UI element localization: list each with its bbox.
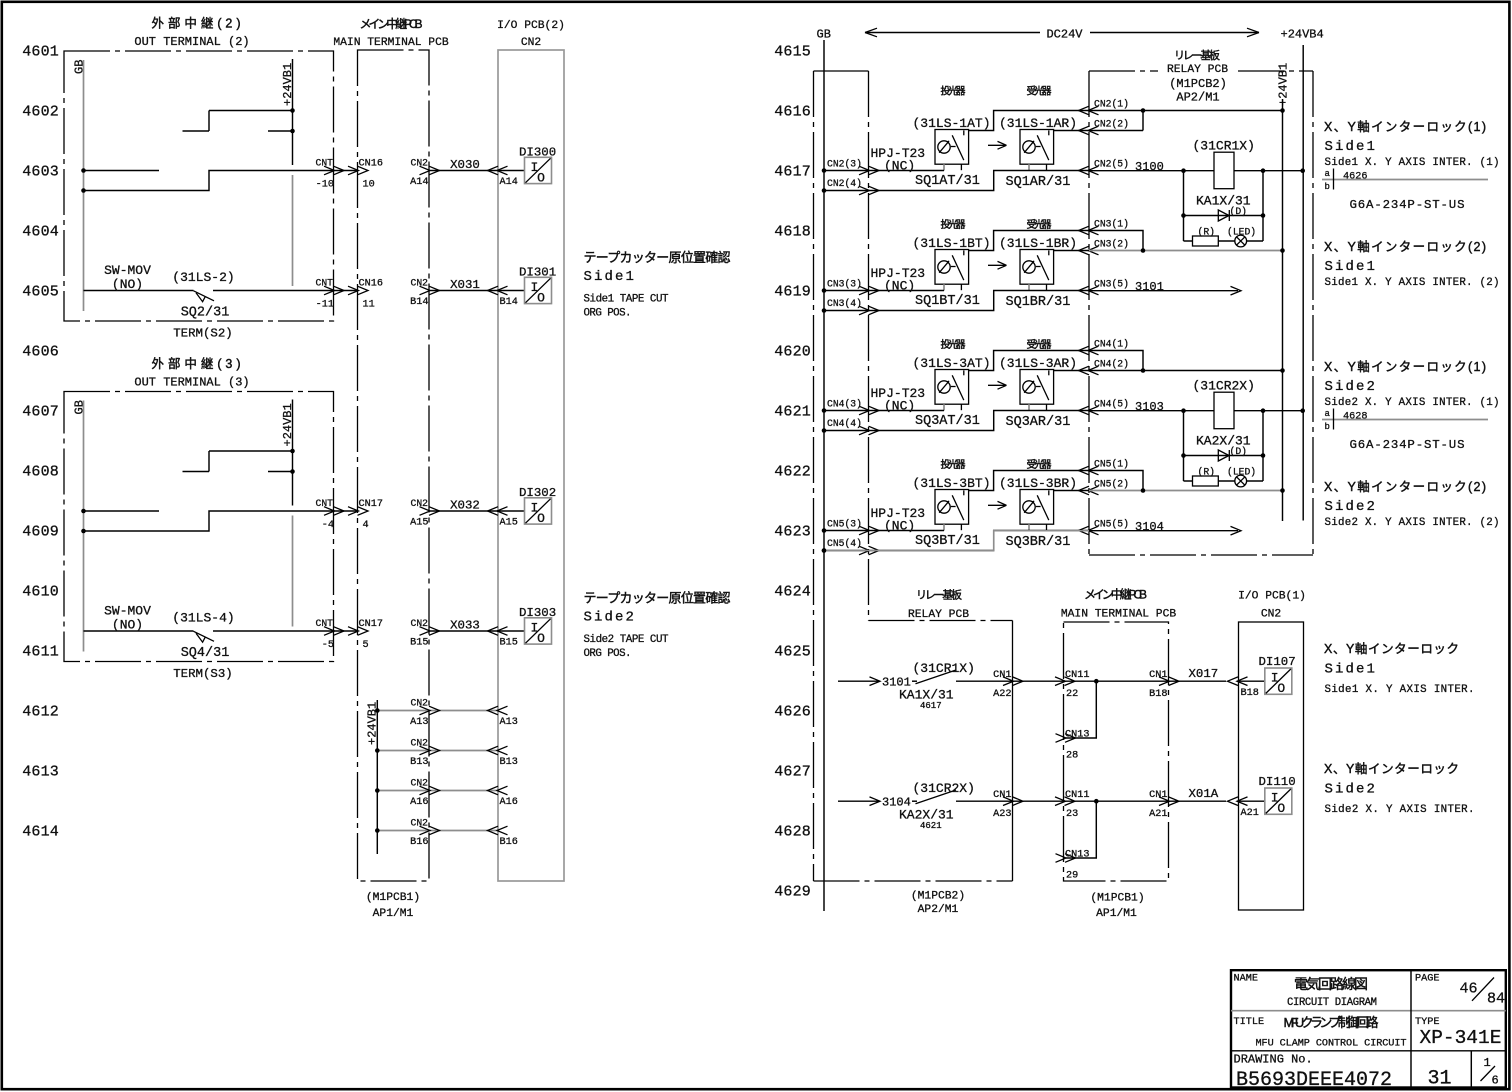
main terminal pcb box M1PCB1 (left): [358, 50, 430, 881]
svg-text:4611: 4611: [22, 643, 59, 660]
svg-text:(31LS-3AT): (31LS-3AT): [912, 356, 990, 371]
svg-text:-4: -4: [322, 520, 334, 531]
svg-text:4628: 4628: [774, 823, 811, 840]
svg-text:A14: A14: [410, 177, 428, 188]
svg-text:CN1: CN1: [993, 790, 1011, 801]
bus rail +24VB1: [1282, 99, 1284, 521]
svg-text:4629: 4629: [774, 883, 811, 900]
svg-text:SQ1AT/31: SQ1AT/31: [915, 174, 980, 189]
svg-text:Side2: Side2: [1325, 782, 1378, 798]
svg-text:46: 46: [1460, 981, 1478, 998]
svg-text:4: 4: [363, 520, 369, 531]
svg-text:84: 84: [1487, 991, 1505, 1008]
wire CN2 B16 row: [375, 818, 508, 835]
svg-text:CN16: CN16: [359, 159, 383, 170]
svg-text:CN5(4): CN5(4): [827, 538, 862, 549]
svg-text:Side2 X. Y AXIS INTER. (1): Side2 X. Y AXIS INTER. (1): [1325, 397, 1500, 409]
svg-text:(M1PCB1): (M1PCB1): [366, 892, 420, 904]
svg-text:CN11: CN11: [1065, 670, 1089, 681]
svg-text:A21: A21: [1241, 808, 1259, 819]
svg-text:SQ3AT/31: SQ3AT/31: [915, 414, 980, 429]
svg-text:CN17: CN17: [359, 499, 383, 510]
svg-text:PAGE: PAGE: [1415, 974, 1439, 985]
svg-text:B14: B14: [500, 297, 518, 308]
svg-text:OUT TERMINAL (2): OUT TERMINAL (2): [134, 35, 249, 49]
wire X032 row with I/O point DI302: [411, 498, 552, 526]
svg-text:A15: A15: [410, 518, 428, 529]
relay contact KA2X/31 row to I/O DI110: [838, 788, 1292, 862]
svg-text:RELAY PCB: RELAY PCB: [908, 609, 969, 621]
svg-text:MFUクランプ 制御回路: MFUクランプ 制御回路: [1284, 1015, 1379, 1030]
sensor pair 31LS-3AT / 31LS-3AR with wires CN4(1)-CN4(4): [822, 346, 1099, 435]
svg-text:A16: A16: [500, 797, 518, 808]
svg-text:Side1 X. Y AXIS INTER.: Side1 X. Y AXIS INTER.: [1325, 684, 1475, 696]
svg-text:TERM(S2): TERM(S2): [173, 327, 233, 341]
svg-text:X、Y軸インターロック: X、Y軸インターロック: [1324, 642, 1459, 656]
svg-text:メイン中継PCB: メイン中継PCB: [360, 16, 423, 31]
svg-text:(31LS-1BR): (31LS-1BR): [999, 236, 1077, 251]
svg-text:B16: B16: [410, 837, 428, 848]
svg-text:3104: 3104: [1135, 520, 1164, 534]
svg-text:(M1PCB1): (M1PCB1): [1090, 893, 1144, 905]
svg-text:(M1PCB2): (M1PCB2): [911, 891, 965, 903]
svg-text:Side1: Side1: [584, 269, 637, 285]
svg-text:Side1: Side1: [1325, 662, 1378, 678]
svg-text:CN5(1): CN5(1): [1094, 459, 1129, 470]
svg-text:4623: 4623: [774, 523, 811, 540]
svg-text:Side1 TAPE CUT: Side1 TAPE CUT: [584, 294, 670, 306]
relay contact KA1X/31 row to I/O DI107: [838, 668, 1292, 742]
svg-text:CN3(3): CN3(3): [827, 279, 862, 290]
svg-text:DI302: DI302: [519, 486, 556, 500]
svg-text:DI300: DI300: [519, 146, 556, 160]
svg-text:5: 5: [363, 640, 369, 651]
svg-text:受光器: 受光器: [1027, 218, 1052, 231]
svg-text:投光器: 投光器: [941, 458, 966, 471]
svg-text:4619: 4619: [774, 283, 811, 300]
svg-text:CN16: CN16: [359, 279, 383, 290]
signal 3104 output arrow: [1089, 526, 1241, 535]
svg-text:DI107: DI107: [1259, 655, 1296, 669]
svg-text:X030: X030: [450, 158, 480, 172]
svg-text:-11: -11: [316, 300, 334, 311]
annotation X,Y axis interlock (1) Side1: [1322, 120, 1500, 212]
svg-text:Side1: Side1: [1325, 139, 1378, 155]
svg-text:X01A: X01A: [1189, 787, 1219, 801]
svg-text:投光器: 投光器: [941, 85, 966, 98]
svg-text:TERM(S3): TERM(S3): [173, 667, 233, 681]
svg-text:-5: -5: [322, 640, 334, 651]
svg-text:DI110: DI110: [1259, 775, 1296, 789]
svg-text:投光器: 投光器: [941, 338, 966, 351]
svg-text:CN3(2): CN3(2): [1094, 239, 1129, 250]
svg-text:AP1/M1: AP1/M1: [373, 908, 414, 920]
svg-text:B15: B15: [410, 638, 428, 649]
wire X033 row with I/O point DI303: [411, 618, 552, 646]
svg-text:X、Y軸インターロック(2): X、Y軸インターロック(2): [1324, 480, 1486, 494]
svg-text:b: b: [1325, 182, 1330, 192]
svg-text:B18: B18: [1241, 688, 1259, 699]
svg-text:4602: 4602: [22, 103, 59, 120]
svg-text:4617: 4617: [774, 163, 811, 180]
svg-text:MFU CLAMP CONTROL CIRCUIT: MFU CLAMP CONTROL CIRCUIT: [1256, 1039, 1407, 1050]
wire X031 row with I/O point DI301: [411, 277, 552, 305]
svg-text:CN13: CN13: [1065, 730, 1089, 741]
svg-text:4626: 4626: [774, 703, 811, 720]
svg-text:4621: 4621: [774, 403, 811, 420]
left column line numbers 4601-4614: [22, 43, 59, 840]
svg-text:ORG POS.: ORG POS.: [584, 308, 632, 320]
svg-text:4627: 4627: [774, 763, 811, 780]
svg-text:DI303: DI303: [519, 606, 556, 620]
svg-text:X017: X017: [1189, 667, 1219, 681]
terminal box TERM(S3) OUT TERMINAL (3): [64, 392, 368, 662]
svg-text:4601: 4601: [22, 43, 59, 60]
wire CN2 B13 row: [375, 738, 508, 755]
svg-text:B15: B15: [500, 638, 518, 649]
sensor pair 31LS-3BT / 31LS-3BR with wires CN5(1)-CN5(4): [822, 466, 1099, 555]
wire CN2 A13 row: [375, 698, 508, 715]
svg-text:A16: A16: [410, 797, 428, 808]
svg-text:ORG POS.: ORG POS.: [584, 648, 632, 660]
svg-text:DC24V: DC24V: [1046, 28, 1083, 42]
right column line numbers 4615-4629: [774, 43, 811, 900]
svg-text:CN5(5): CN5(5): [1094, 519, 1129, 530]
relay pcb box RELAY PCB M1PCB2 (top): [1088, 71, 1090, 555]
svg-text:CN2(2): CN2(2): [1094, 119, 1129, 130]
svg-text:(31LS-1BT): (31LS-1BT): [912, 236, 990, 251]
svg-text:(31CR1X): (31CR1X): [913, 661, 975, 676]
svg-text:CN5(3): CN5(3): [827, 519, 862, 530]
svg-text:B14: B14: [410, 297, 428, 308]
svg-text:(31LS-2): (31LS-2): [172, 270, 234, 285]
I/O pcb box I/O PCB(1): [1239, 622, 1304, 910]
svg-text:CIRCUIT DIAGRAM: CIRCUIT DIAGRAM: [1287, 997, 1377, 1009]
svg-text:B16: B16: [500, 837, 518, 848]
svg-text:X、Y軸インターロック(2): X、Y軸インターロック(2): [1324, 240, 1486, 254]
svg-text:X033: X033: [450, 619, 480, 633]
svg-text:(31LS-1AR): (31LS-1AR): [999, 116, 1077, 131]
svg-text:X、Y軸インターロック(1): X、Y軸インターロック(1): [1324, 120, 1486, 134]
svg-text:I/O PCB(2): I/O PCB(2): [497, 20, 565, 32]
svg-text:4618: 4618: [774, 223, 811, 240]
svg-text:4608: 4608: [22, 463, 59, 480]
svg-text:受光器: 受光器: [1027, 338, 1052, 351]
svg-text:Side1: Side1: [1325, 259, 1378, 275]
svg-text:(31CR1X): (31CR1X): [1193, 139, 1255, 154]
svg-text:Side2 TAPE CUT: Side2 TAPE CUT: [584, 634, 670, 646]
svg-text:SQ4/31: SQ4/31: [181, 646, 230, 661]
svg-text:3103: 3103: [1135, 400, 1164, 414]
svg-text:4621: 4621: [920, 821, 942, 831]
svg-text:4605: 4605: [22, 283, 59, 300]
svg-text:+24VB1: +24VB1: [1277, 63, 1291, 106]
svg-text:AP2/M1: AP2/M1: [1176, 91, 1219, 105]
svg-text:22: 22: [1066, 689, 1078, 700]
wire X030 row with I/O point DI300: [411, 157, 552, 185]
svg-text:B13: B13: [410, 757, 428, 768]
svg-text:CN2(1): CN2(1): [1094, 99, 1129, 110]
svg-text:CN2(4): CN2(4): [827, 178, 862, 189]
svg-text:テープカッター原位置確認: テープカッター原位置確認: [584, 591, 731, 606]
wire CN5(4) jog (gray): [824, 531, 1089, 551]
svg-text:DI301: DI301: [519, 266, 556, 280]
svg-text:4610: 4610: [22, 583, 59, 600]
wire CN2(1) to +24VB1 with jog to CN2(2): [1089, 110, 1283, 112]
svg-text:CN2(3): CN2(3): [827, 159, 862, 170]
svg-text:A21: A21: [1149, 809, 1167, 820]
svg-text:6: 6: [1492, 1074, 1499, 1088]
terminal box TERM(S2) OUT TERMINAL (2): [64, 51, 368, 321]
svg-text:11: 11: [363, 300, 375, 311]
svg-text:4615: 4615: [774, 43, 811, 60]
relay 31CR2X coil circuit: [1089, 392, 1305, 487]
annotation X,Y axis interlock (2) Side2: [1324, 480, 1500, 529]
svg-text:I/O PCB(1): I/O PCB(1): [1238, 591, 1306, 603]
svg-text:(M1PCB2): (M1PCB2): [1169, 77, 1227, 91]
relay pcb connector-side boundary: [813, 71, 815, 881]
svg-text:CN2: CN2: [521, 37, 541, 49]
svg-text:RELAY PCB: RELAY PCB: [1167, 64, 1228, 76]
svg-text:4617: 4617: [920, 701, 942, 711]
svg-text:31: 31: [1427, 1067, 1451, 1090]
svg-text:CN4(5): CN4(5): [1094, 399, 1129, 410]
svg-text:CN3(4): CN3(4): [827, 298, 862, 309]
svg-text:4620: 4620: [774, 343, 811, 360]
svg-text:CN2: CN2: [1261, 609, 1281, 621]
svg-text:28: 28: [1066, 751, 1078, 762]
svg-text:A14: A14: [500, 177, 518, 188]
svg-text:CN11: CN11: [1065, 790, 1089, 801]
svg-text:Side2 X. Y AXIS INTER.: Side2 X. Y AXIS INTER.: [1325, 804, 1475, 816]
TITLE BLOCK: [1231, 970, 1506, 1092]
wire CN3(1)/CN3(2) to +24VB1: [1089, 231, 1143, 251]
svg-text:Side2: Side2: [1325, 499, 1378, 515]
svg-text:CN4(1): CN4(1): [1094, 339, 1129, 350]
svg-text:CN4(4): CN4(4): [827, 418, 862, 429]
svg-text:4622: 4622: [774, 463, 811, 480]
title block frame: [1231, 970, 1506, 1087]
svg-text:(31LS-3BT): (31LS-3BT): [912, 476, 990, 491]
svg-text:4607: 4607: [22, 403, 59, 420]
svg-text:CN1: CN1: [1149, 790, 1167, 801]
svg-text:3101: 3101: [1135, 280, 1164, 294]
svg-text:OUT TERMINAL (3): OUT TERMINAL (3): [134, 376, 249, 390]
svg-text:Side2: Side2: [584, 610, 637, 626]
bus rail GB: [823, 40, 825, 911]
svg-text:CN4(3): CN4(3): [827, 399, 862, 410]
svg-text:CN5(2): CN5(2): [1094, 479, 1129, 490]
svg-text:(31LS-3BR): (31LS-3BR): [999, 476, 1077, 491]
sensor pair 31LS-1AT / 31LS-1AR with wires CN2(1)-CN2(4): [822, 106, 1099, 195]
svg-text:B13: B13: [500, 757, 518, 768]
svg-text:(31LS-3AR): (31LS-3AR): [999, 356, 1077, 371]
svg-text:メイン中継PCB: メイン中継PCB: [1084, 587, 1147, 602]
wire CN4(1)/CN4(2) to +24VB1: [1089, 351, 1143, 371]
svg-text:(31LS-4): (31LS-4): [172, 611, 234, 626]
svg-text:B5693DEEE4072: B5693DEEE4072: [1236, 1069, 1392, 1092]
svg-text:4613: 4613: [22, 763, 59, 780]
svg-text:4609: 4609: [22, 523, 59, 540]
main terminal pcb box M1PCB1 (bottom right): [1064, 622, 1169, 881]
svg-text:A15: A15: [500, 518, 518, 529]
svg-text:+24VB4: +24VB4: [1281, 28, 1324, 42]
svg-text:AP1/M1: AP1/M1: [1096, 908, 1137, 920]
svg-text:テープカッター原位置確認: テープカッター原位置確認: [584, 250, 731, 265]
svg-text:CN3(5): CN3(5): [1094, 279, 1129, 290]
svg-text:DRAWING No.: DRAWING No.: [1234, 1053, 1313, 1067]
svg-text:GB: GB: [817, 28, 831, 42]
svg-text:SQ3BR/31: SQ3BR/31: [1006, 535, 1071, 550]
svg-text:A13: A13: [500, 717, 518, 728]
svg-text:a: a: [1325, 409, 1331, 419]
svg-text:Side1 X. Y AXIS INTER. (1): Side1 X. Y AXIS INTER. (1): [1325, 157, 1500, 169]
svg-text:受光器: 受光器: [1027, 458, 1052, 471]
svg-text:X、Y軸インターロック(1): X、Y軸インターロック(1): [1324, 360, 1486, 374]
svg-text:4614: 4614: [22, 823, 59, 840]
svg-text:4624: 4624: [774, 583, 811, 600]
annotation X,Y axis interlock (1) Side2: [1322, 360, 1500, 452]
svg-text:CN4(2): CN4(2): [1094, 359, 1129, 370]
svg-text:4603: 4603: [22, 163, 59, 180]
svg-text:Side2 X. Y AXIS INTER. (2): Side2 X. Y AXIS INTER. (2): [1325, 517, 1500, 529]
wire CN5(1)/CN5(2) to +24VB1: [1089, 471, 1143, 491]
annotation X,Y axis interlock (2) Side1: [1324, 240, 1500, 289]
svg-text:23: 23: [1066, 809, 1078, 820]
svg-text:B18: B18: [1149, 689, 1167, 700]
svg-text:CN17: CN17: [359, 619, 383, 630]
svg-text:10: 10: [363, 180, 375, 191]
svg-text:4626: 4626: [1343, 172, 1367, 183]
sensor pair 31LS-1BT / 31LS-1BR with wires CN3(1)-CN3(4): [822, 226, 1099, 315]
svg-text:X、Y軸インターロック: X、Y軸インターロック: [1324, 762, 1459, 776]
svg-text:AP2/M1: AP2/M1: [918, 904, 959, 916]
svg-text:KA2X/31: KA2X/31: [1196, 434, 1251, 449]
DC24V span arrow: [865, 32, 1259, 34]
svg-text:受光器: 受光器: [1027, 85, 1052, 98]
svg-text:SQ3BT/31: SQ3BT/31: [915, 534, 980, 549]
svg-text:Side1 X. Y AXIS INTER. (2): Side1 X. Y AXIS INTER. (2): [1325, 277, 1500, 289]
svg-text:KA1X/31: KA1X/31: [1196, 194, 1251, 209]
svg-text:SQ1BT/31: SQ1BT/31: [915, 294, 980, 309]
svg-text:1: 1: [1484, 1056, 1491, 1070]
svg-text:CN13: CN13: [1065, 850, 1089, 861]
signal 3101 output arrow: [1089, 286, 1241, 295]
svg-text:(31LS-1AT): (31LS-1AT): [912, 116, 990, 131]
svg-text:G6A-234P-ST-US: G6A-234P-ST-US: [1350, 438, 1465, 452]
svg-text:X032: X032: [450, 499, 480, 513]
svg-text:CN1: CN1: [1149, 670, 1167, 681]
svg-text:Side2: Side2: [1325, 379, 1378, 395]
svg-text:(31CR2X): (31CR2X): [1193, 379, 1255, 394]
svg-text:4612: 4612: [22, 703, 59, 720]
svg-text:A22: A22: [993, 689, 1011, 700]
relay pcb contact-section boundary: [869, 620, 1013, 622]
svg-text:b: b: [1325, 422, 1330, 432]
svg-text:4606: 4606: [22, 343, 59, 360]
svg-text:X031: X031: [450, 278, 480, 292]
annotation X,Y axis interlock Side1 (bottom): [1324, 642, 1475, 696]
svg-text:4604: 4604: [22, 223, 59, 240]
svg-text:電気回路線図: 電気回路線図: [1294, 976, 1368, 992]
svg-text:4625: 4625: [774, 643, 811, 660]
svg-text:CN2(5): CN2(5): [1094, 159, 1129, 170]
svg-text:a: a: [1325, 169, 1331, 179]
wire CN2 A16 row: [375, 778, 508, 795]
bus rail +24VB4: [1302, 45, 1304, 521]
svg-text:MAIN TERMINAL PCB: MAIN TERMINAL PCB: [333, 37, 448, 49]
svg-text:SQ1AR/31: SQ1AR/31: [1006, 175, 1071, 190]
svg-text:MAIN TERMINAL PCB: MAIN TERMINAL PCB: [1061, 609, 1176, 621]
svg-text:XP-341E: XP-341E: [1420, 1027, 1502, 1049]
I/O pcb box I/O PCB(2): [498, 50, 564, 881]
svg-text:SQ2/31: SQ2/31: [181, 306, 230, 321]
svg-text:A23: A23: [993, 809, 1011, 820]
svg-text:G6A-234P-ST-US: G6A-234P-ST-US: [1350, 198, 1465, 212]
svg-text:NAME: NAME: [1234, 974, 1258, 985]
svg-text:CN1: CN1: [993, 670, 1011, 681]
svg-text:投光器: 投光器: [941, 218, 966, 231]
svg-text:-10: -10: [316, 180, 334, 191]
svg-text:4628: 4628: [1343, 412, 1367, 423]
relay 31CR1X coil circuit: [1089, 152, 1305, 247]
svg-text:3100: 3100: [1135, 160, 1164, 174]
svg-text:SQ1BR/31: SQ1BR/31: [1006, 295, 1071, 310]
svg-text:(31CR2X): (31CR2X): [913, 781, 975, 796]
svg-text:4616: 4616: [774, 103, 811, 120]
svg-text:リレー基板: リレー基板: [916, 588, 962, 602]
svg-text:SQ3AR/31: SQ3AR/31: [1006, 415, 1071, 430]
svg-text:A13: A13: [410, 717, 428, 728]
svg-text:TITLE: TITLE: [1234, 1017, 1265, 1028]
annotation X,Y axis interlock Side2 (bottom): [1324, 762, 1475, 816]
svg-text:29: 29: [1066, 871, 1078, 882]
svg-text:リレー基板: リレー基板: [1174, 48, 1220, 62]
svg-text:CN3(1): CN3(1): [1094, 219, 1129, 230]
